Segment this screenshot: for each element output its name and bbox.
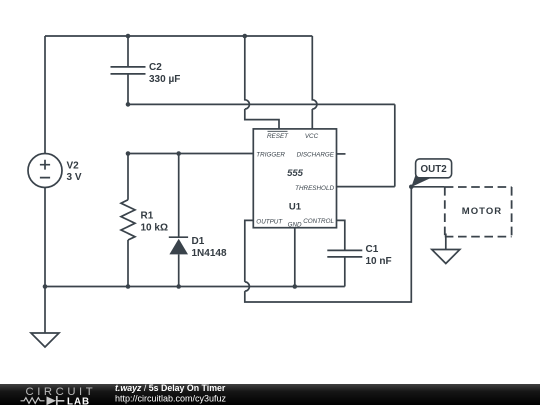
svg-text:DISCHARGE: DISCHARGE xyxy=(297,152,335,159)
wire VCC branch with hop xyxy=(312,36,317,129)
svg-text:CONTROL: CONTROL xyxy=(303,218,334,225)
resistor R1 xyxy=(121,154,135,287)
svg-text:V2: V2 xyxy=(67,161,80,172)
pin label GND xyxy=(288,221,302,228)
footer bar xyxy=(0,384,540,405)
label V2 3 V xyxy=(67,161,82,184)
label R1 10 kOhm xyxy=(141,211,168,234)
wire CONTROL to C1 xyxy=(337,220,345,250)
svg-text:GND: GND xyxy=(288,221,302,228)
footer title xyxy=(115,383,227,403)
label C1 10 nF xyxy=(366,244,392,267)
svg-text:VCC: VCC xyxy=(305,133,319,140)
node dot R1 top xyxy=(126,151,131,156)
node dot C2 top xyxy=(126,34,131,39)
svg-text:LAB: LAB xyxy=(67,397,90,405)
svg-text:http://circuitlab.com/cy3ufuz: http://circuitlab.com/cy3ufuz xyxy=(115,393,227,403)
wire C2 bottom to THRESHOLD xyxy=(128,104,395,186)
wire OUTPUT to OUT2 node with hop over bottom rail xyxy=(245,187,411,302)
capacitor C2 xyxy=(111,36,146,104)
wire bottom rail xyxy=(45,286,345,288)
pin label OUTPUT xyxy=(256,219,283,226)
label U1 xyxy=(289,202,302,213)
wire RESET branch with hop xyxy=(245,36,279,129)
svg-text:555: 555 xyxy=(287,168,304,179)
label D1 1N4148 xyxy=(192,236,227,259)
svg-text:THRESHOLD: THRESHOLD xyxy=(295,185,334,192)
svg-text:3 V: 3 V xyxy=(67,172,82,183)
pin label TRIGGER xyxy=(256,152,285,159)
pin stub DISCHARGE xyxy=(337,153,346,155)
svg-text:U1: U1 xyxy=(289,202,302,213)
wire top rail xyxy=(45,35,312,37)
svg-text:C2: C2 xyxy=(149,62,162,73)
node dot D1 top xyxy=(176,151,181,156)
svg-text:D1: D1 xyxy=(192,236,205,247)
wire GND pin xyxy=(294,228,296,287)
pin label RESET (active low) xyxy=(267,131,289,140)
svg-text:OUT2: OUT2 xyxy=(421,164,448,175)
motor box (dashed) xyxy=(445,187,512,237)
node dot RESET branch on top rail xyxy=(243,34,248,39)
node dot ground tee xyxy=(43,284,48,289)
svg-text:R1: R1 xyxy=(141,211,154,222)
svg-text:10 nF: 10 nF xyxy=(366,256,392,267)
node dot C2 bottom xyxy=(126,102,131,107)
svg-text:10 kΩ: 10 kΩ xyxy=(141,223,168,234)
label MOTOR xyxy=(462,206,502,217)
wire OUT2 to motor xyxy=(411,186,445,188)
wire TRIGGER to R1/D1 tops xyxy=(128,153,253,155)
op-amp U1 555 timer box xyxy=(253,129,336,228)
ground (main) xyxy=(31,287,59,348)
svg-text:OUTPUT: OUTPUT xyxy=(256,219,283,226)
diode D1 xyxy=(169,154,188,287)
ground (motor) xyxy=(432,250,460,264)
label C2 330 uF xyxy=(149,62,180,85)
pin label DISCHARGE xyxy=(297,152,335,159)
svg-text:1N4148: 1N4148 xyxy=(192,248,227,259)
node dot GND pin xyxy=(293,284,298,289)
label 555 xyxy=(287,168,304,179)
voltage source V2 xyxy=(28,154,62,188)
wire motor to ground xyxy=(445,234,447,250)
wire left vertical (V2 branch) xyxy=(44,36,46,287)
pin label THRESHOLD xyxy=(295,185,334,192)
svg-text:330 µF: 330 µF xyxy=(149,74,180,85)
pin label CONTROL xyxy=(303,218,334,225)
svg-text:TRIGGER: TRIGGER xyxy=(256,152,285,159)
svg-text:MOTOR: MOTOR xyxy=(462,206,502,217)
node dot D1 bottom xyxy=(176,284,181,289)
pin label VCC xyxy=(305,133,319,140)
svg-text:t.wayz / 5s Delay On Timer: t.wayz / 5s Delay On Timer xyxy=(115,383,226,393)
node OUT2 dot xyxy=(409,185,414,190)
flag OUT2 xyxy=(411,159,451,187)
svg-text:C1: C1 xyxy=(366,244,379,255)
capacitor C1 xyxy=(327,250,362,286)
logo CircuitLab xyxy=(21,386,97,405)
svg-text:RESET: RESET xyxy=(267,133,289,140)
node dot R1 bottom xyxy=(126,284,131,289)
